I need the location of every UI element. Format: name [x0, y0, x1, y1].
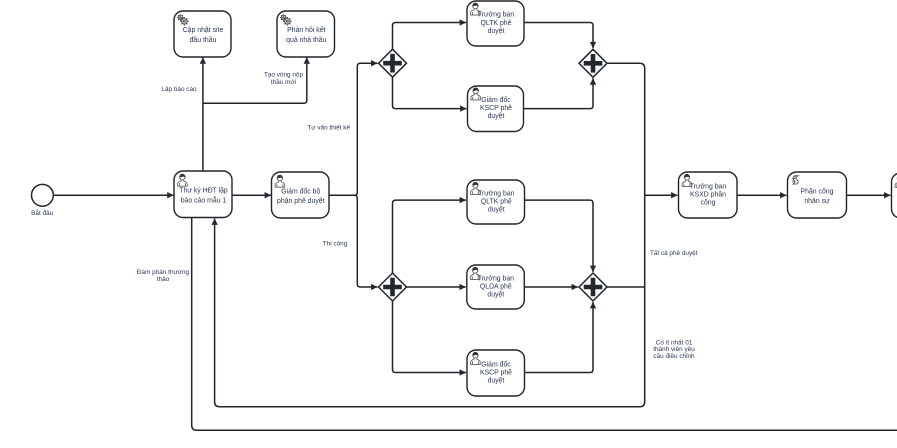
svg-text:Bắt đầu: Bắt đầu [31, 208, 53, 217]
svg-text:Lập báo cáo: Lập báo cáo [161, 86, 197, 93]
svg-text:Có ít nhất 01thành viên yêucầu: Có ít nhất 01thành viên yêucầu điều chỉn… [653, 337, 695, 360]
svg-text:Tư vấn thiết kế: Tư vấn thiết kế [307, 123, 350, 132]
svg-text:Thi công: Thi công [323, 241, 348, 248]
svg-text:Đàm phán thươngthảo: Đàm phán thươngthảo [137, 269, 190, 283]
svg-text:Tất cả phê duyệt: Tất cả phê duyệt [650, 248, 698, 257]
svg-text:Tạo vòng nộpthầu mới: Tạo vòng nộpthầu mới [264, 72, 304, 86]
